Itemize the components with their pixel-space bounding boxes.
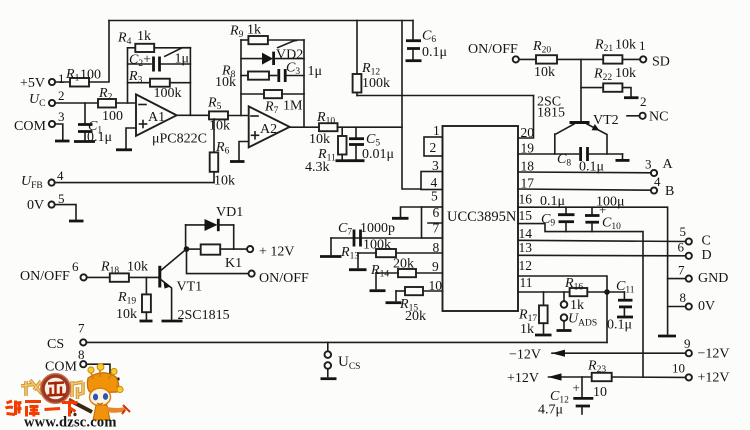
svg-text:4.7μ: 4.7μ (538, 403, 563, 418)
svg-text:100k: 100k (363, 238, 391, 253)
capacitor C2 (128, 52, 191, 72)
ground R14 (370, 289, 386, 292)
ground C1 (74, 140, 95, 143)
svg-text:12: 12 (519, 258, 533, 273)
capacitor C3 (269, 61, 322, 83)
ground UADS (557, 329, 572, 332)
ground pin6 (392, 217, 409, 220)
wire pin15 route to +12V rail (518, 224, 643, 377)
resistor R6 (210, 119, 235, 188)
terminal ON/OFF relay (249, 271, 310, 287)
terminal 2 Uc (29, 88, 65, 109)
terminal 6 D (678, 240, 712, 264)
terminal ON/OFF top (468, 42, 519, 63)
svg-text:3: 3 (645, 157, 652, 172)
svg-text:20k: 20k (405, 309, 426, 324)
wire C2 diagonal stroke (165, 48, 190, 57)
svg-text:UCC3895N: UCC3895N (447, 209, 517, 225)
capacitor C10 (585, 195, 625, 233)
resistor R22 (581, 66, 636, 96)
wire pin6 to ground (401, 207, 422, 217)
op-amp A1 (136, 94, 207, 146)
resistor R11 (305, 127, 347, 175)
svg-text:0.01μ: 0.01μ (362, 147, 394, 162)
resistor R23 (587, 359, 686, 401)
svg-text:B: B (665, 184, 674, 199)
node dot R16 C11 (604, 289, 610, 295)
wire pin20 row and drop from +5V rail wire (518, 96, 534, 139)
resistor R9 (229, 23, 304, 45)
terminal 3 A (645, 157, 674, 177)
svg-text:A2: A2 (260, 122, 277, 137)
svg-text:100: 100 (80, 68, 101, 83)
ground COM8 (104, 378, 120, 381)
relay K1 (187, 244, 248, 271)
svg-text:1M: 1M (283, 99, 303, 114)
svg-text:15: 15 (519, 208, 533, 223)
svg-text:9: 9 (684, 336, 691, 351)
diode VD2 (241, 48, 304, 66)
svg-text:1μ: 1μ (175, 52, 190, 67)
svg-text:K1: K1 (225, 256, 242, 271)
wire +12V row (507, 371, 592, 386)
capacitor C8 (557, 147, 623, 175)
terminal 8 COM (45, 347, 86, 375)
ground UCS (321, 377, 337, 380)
svg-text:8: 8 (78, 347, 85, 362)
capacitor C1 (78, 103, 112, 145)
wire pin14 to terminal C (518, 240, 686, 241)
svg-text:SD: SD (652, 55, 670, 70)
resistor R4 (117, 29, 190, 52)
node UCS jacks (325, 342, 361, 376)
svg-text:ON/OFF: ON/OFF (259, 271, 309, 286)
svg-text:0.1μ: 0.1μ (422, 45, 447, 60)
svg-text:www.dzsc.com: www.dzsc.com (24, 415, 117, 430)
wire vertical rail to pin 4 (402, 21, 421, 190)
svg-text:100k: 100k (154, 86, 182, 101)
terminal 5 0V (27, 191, 65, 213)
svg-text:A1: A1 (148, 110, 165, 125)
capacitor C5 (349, 127, 394, 162)
svg-text:20k: 20k (393, 257, 414, 272)
terminal 5 C (680, 224, 711, 249)
wire VD2 diagonal stroke (278, 41, 297, 48)
svg-text:6: 6 (433, 205, 440, 220)
transistor VT1 (160, 250, 230, 323)
wire Uc row (55, 102, 98, 104)
ground rail bar (658, 335, 676, 338)
ground R17 (535, 334, 552, 337)
svg-text:VT2: VT2 (593, 113, 619, 128)
wire VD1 left drop (185, 225, 187, 249)
svg-text:0V: 0V (27, 198, 44, 213)
svg-text:6: 6 (678, 240, 685, 255)
wire collector node to ON/OFF (187, 249, 249, 274)
ground C7 (320, 255, 342, 258)
resistor R17 (518, 292, 548, 337)
ground C11 (617, 316, 633, 319)
resistor R18 (87, 260, 159, 282)
wire A2 feedback right vertical (303, 40, 305, 127)
svg-text:5: 5 (58, 191, 65, 206)
svg-text:0.1μ: 0.1μ (540, 194, 565, 209)
wire pin7 row (331, 237, 422, 239)
watermark logo (6, 364, 131, 430)
wire A2 feedback left vertical (240, 40, 242, 116)
svg-text:GND: GND (698, 271, 728, 286)
node UADS jacks (561, 292, 597, 329)
capacitor C12 (538, 377, 593, 418)
wire pin13 to terminal D (518, 254, 686, 257)
svg-text:4: 4 (57, 168, 64, 183)
wire pin16 row to ground rail (518, 207, 668, 334)
pin 4 (421, 172, 443, 191)
wire pin11 row (518, 291, 570, 293)
resistor R14 (370, 257, 443, 289)
terminal 4 UFB (21, 168, 64, 191)
svg-text:+12V: +12V (507, 371, 539, 386)
svg-text:+ 12V: + 12V (259, 245, 295, 260)
ground R22 (624, 96, 639, 99)
svg-text:1k: 1k (137, 29, 151, 44)
wire A2 output row (290, 126, 319, 128)
wire C7 left to ground (330, 238, 332, 255)
resistor R16 (564, 276, 607, 313)
resistor R8 (215, 64, 269, 91)
svg-text:10k: 10k (209, 119, 230, 134)
ground VT1 emitter (162, 320, 183, 323)
svg-text:7: 7 (78, 321, 85, 336)
wire R10 to pin4 vertical (338, 126, 403, 128)
svg-text:0.1μ: 0.1μ (607, 318, 632, 333)
svg-text:16: 16 (519, 192, 533, 207)
svg-text:11: 11 (520, 275, 533, 290)
capacitor C9 (540, 194, 575, 232)
svg-text:10k: 10k (534, 65, 555, 80)
terminal 7 GND (668, 263, 729, 287)
ground R19 (140, 320, 153, 323)
op-amp A2 (249, 106, 290, 147)
svg-text:9: 9 (432, 259, 439, 274)
wire R12 bottom to pin20 drop (357, 95, 534, 97)
svg-text:4.3k: 4.3k (305, 160, 330, 175)
svg-text:+: + (573, 380, 580, 395)
terminal 3 COM (14, 109, 65, 134)
resistor R12 (353, 21, 390, 96)
svg-text:VD1: VD1 (216, 205, 243, 220)
svg-text:C: C (702, 234, 711, 249)
svg-text:8: 8 (680, 290, 687, 305)
svg-text:NC: NC (649, 110, 668, 125)
svg-text:7: 7 (433, 221, 440, 236)
wire R1 to top rail (89, 21, 109, 83)
transistor VT2 (537, 59, 619, 154)
capacitor C7 (338, 221, 395, 247)
svg-text:VT1: VT1 (177, 280, 203, 295)
svg-text:4: 4 (654, 174, 661, 189)
ground R15 (386, 301, 402, 304)
wire A1 feedback right vertical (189, 48, 191, 116)
svg-text:ON/OFF: ON/OFF (468, 42, 518, 57)
svg-text:10k: 10k (615, 38, 636, 53)
terminal 2 NC (627, 94, 668, 125)
wire COM to ground (55, 124, 63, 140)
svg-text:2: 2 (640, 94, 647, 109)
svg-text:1μ: 1μ (308, 64, 323, 79)
resistor R7 (241, 90, 304, 116)
svg-text:10k: 10k (116, 307, 137, 322)
svg-text:A: A (663, 157, 674, 172)
wire CS row (86, 341, 607, 343)
wire R5 to A2 inverting input (228, 115, 249, 117)
resistor R15 (396, 287, 443, 324)
resistor R10 (309, 110, 338, 147)
svg-text:10: 10 (593, 385, 607, 400)
svg-text:μPC822C: μPC822C (152, 132, 207, 147)
svg-text:5: 5 (680, 224, 687, 239)
svg-text:10: 10 (672, 361, 685, 376)
ground C5 (348, 159, 365, 162)
svg-text:−12V: −12V (698, 347, 730, 362)
svg-text:6: 6 (72, 259, 79, 274)
wire +5V row (55, 81, 70, 83)
wire A1 output row (177, 114, 209, 116)
ground R13 (349, 268, 367, 271)
terminal 10 +12V (672, 361, 730, 386)
svg-text:100k: 100k (362, 76, 390, 91)
resistor R21 (594, 38, 640, 64)
ground C8 (616, 154, 630, 160)
ground A2 (230, 160, 245, 163)
wire top +5V rail (109, 20, 413, 22)
svg-text:ON/OFF: ON/OFF (20, 269, 70, 284)
svg-text:10k: 10k (127, 260, 148, 275)
wire COM8 to ground (86, 364, 110, 377)
wire R2 to A1 inverting input (116, 102, 136, 104)
svg-text:1k: 1k (520, 322, 534, 337)
svg-text:10k: 10k (615, 66, 636, 81)
resistor R3 (128, 69, 191, 101)
svg-text:0V: 0V (698, 299, 715, 314)
svg-text:2: 2 (58, 88, 65, 103)
op-amp U1 UCC3895N (443, 126, 519, 311)
wire pin12 to node (518, 276, 607, 342)
ground 0V (69, 220, 84, 223)
svg-text:7: 7 (678, 263, 685, 278)
terminal 1 +5V (20, 71, 65, 91)
svg-text:1000p: 1000p (360, 221, 395, 236)
terminal 9 -12V (684, 336, 730, 362)
resistor R1 (65, 67, 101, 87)
ground COM (55, 140, 70, 143)
resistor R2 (98, 86, 123, 124)
capacitor C6 (406, 21, 447, 61)
svg-text:1815: 1815 (537, 106, 565, 121)
terminal 6 ON/OFF left (20, 259, 87, 284)
resistor R20 (519, 39, 603, 80)
svg-text:1: 1 (639, 38, 646, 53)
resistor R19 (116, 277, 151, 322)
resistor R5 (207, 96, 230, 134)
wire A1 noninverting input to ground (126, 128, 136, 148)
svg-text:COM: COM (45, 360, 77, 375)
terminal 1 SD (639, 38, 670, 70)
svg-text:3: 3 (58, 109, 65, 124)
svg-text:14: 14 (519, 226, 533, 241)
svg-text:+12V: +12V (698, 371, 730, 386)
wire pin18 to terminal A (518, 171, 651, 174)
wire A2 noninverting input to ground (239, 142, 249, 161)
terminal +12V relay (247, 245, 295, 260)
svg-text:1k: 1k (247, 23, 261, 38)
terminal 8 0V (668, 290, 716, 314)
svg-text:COM: COM (14, 119, 46, 134)
terminal 4 B (651, 174, 674, 199)
pin 2 (424, 137, 443, 156)
wire pin17 to terminal B (518, 189, 651, 190)
resistor R13 (340, 238, 443, 268)
wire VD1 right drop (233, 225, 235, 249)
terminal 7 CS (47, 321, 86, 353)
svg-text:10k: 10k (215, 75, 236, 90)
svg-text:2: 2 (430, 140, 437, 155)
ground A1 (116, 148, 132, 151)
diode VD1 (186, 205, 244, 231)
svg-text:2SC1815: 2SC1815 (178, 308, 230, 323)
capacitor C11 (607, 279, 635, 333)
svg-text:−12V: −12V (509, 348, 541, 363)
svg-text:+5V: +5V (20, 76, 45, 91)
svg-text:CS: CS (47, 337, 64, 352)
svg-text:100: 100 (102, 109, 123, 124)
wire -12V row to terminal 9 (509, 348, 686, 363)
svg-text:10k: 10k (309, 132, 330, 147)
ground R11 (336, 159, 349, 162)
wire A1 feedback left vertical (127, 48, 129, 103)
node VT1 collector dot (184, 246, 190, 252)
svg-text:10k: 10k (214, 173, 235, 188)
svg-text:5: 5 (431, 189, 438, 204)
wire UFB row (55, 182, 214, 184)
pin 6 (422, 205, 443, 238)
svg-text:D: D (702, 248, 712, 263)
svg-text:1: 1 (58, 71, 65, 86)
wire 0V to ground (55, 205, 76, 219)
wire pin19 row (518, 153, 579, 155)
svg-text:13: 13 (519, 240, 533, 255)
ground C6 (406, 59, 422, 62)
svg-text:1: 1 (433, 123, 440, 138)
